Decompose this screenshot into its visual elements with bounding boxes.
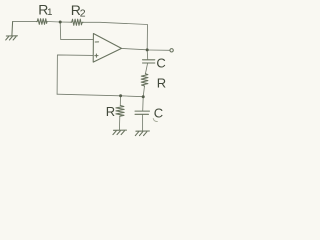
- light plain wires: [13, 22, 170, 131]
- node A (junction dot): [59, 21, 62, 24]
- node C (junction dot, bottom-right branch): [142, 95, 145, 98]
- wire (R2 right, corner, down to node B): [83, 22, 148, 50]
- wire (shunt R down to ground): [118, 116, 120, 130]
- wire (node A to R2): [60, 21, 71, 23]
- wire (node A down, right to inverting input): [60, 22, 92, 40]
- wire (series C to series R): [145, 63, 147, 74]
- op-amp U1: [93, 34, 121, 63]
- wire (shunt C down to ground): [142, 115, 144, 131]
- svg-text:R: R: [106, 104, 115, 119]
- resistor R1: [37, 19, 48, 25]
- wire (node C down to shunt C): [142, 97, 145, 111]
- ground (top-left): [6, 22, 18, 40]
- capacitor C (series, top-right): [143, 60, 155, 63]
- svg-text:C: C: [156, 56, 165, 71]
- wire (node B down to series C): [146, 50, 149, 60]
- resistor R2: [71, 19, 83, 25]
- wire (node B to output terminal): [149, 49, 170, 51]
- resistor R (series, right branch): [141, 74, 148, 86]
- svg-text:1: 1: [47, 7, 52, 18]
- wire (op-amp output to node B): [122, 48, 148, 49]
- wire (series R down to node C): [143, 86, 144, 97]
- stray scan mark below shunt C label: [153, 118, 158, 121]
- wire (top, ground stub to R1): [13, 21, 37, 23]
- node D (junction dot, bottom-left branch): [119, 94, 122, 97]
- wire (bottom rail): [57, 94, 143, 97]
- svg-text:R: R: [157, 76, 166, 91]
- component strokes (darker): [6, 19, 174, 136]
- node B (output junction dot): [146, 48, 149, 51]
- wire (R1 to node A): [47, 21, 60, 24]
- resistor R (shunt, bottom-left): [116, 106, 124, 117]
- ground (bottom-left): [113, 130, 127, 135]
- wire (node D down to shunt R): [119, 96, 121, 106]
- wire (non-inverting input, left then down to bottom rail): [57, 55, 93, 94]
- svg-text:2: 2: [80, 7, 86, 19]
- ground (bottom-right): [135, 131, 149, 136]
- capacitor C (shunt, bottom-right): [135, 111, 150, 114]
- svg-text:C: C: [154, 105, 163, 120]
- output terminal (open circle): [170, 49, 173, 52]
